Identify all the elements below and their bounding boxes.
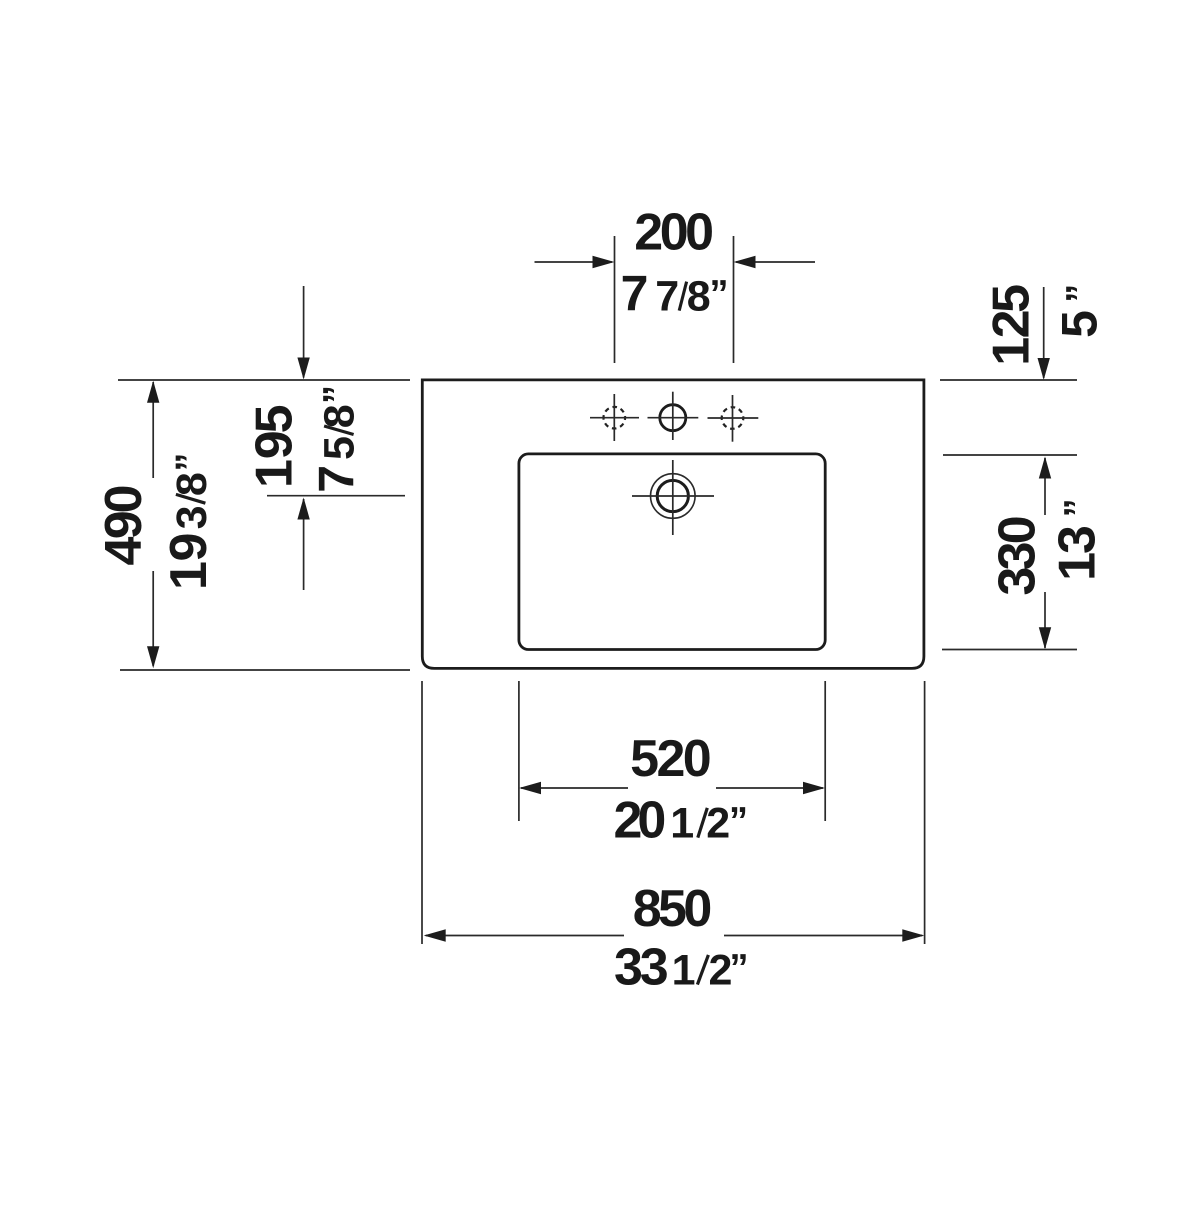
svg-text:1: 1 bbox=[670, 800, 694, 848]
svg-text:”: ” bbox=[317, 385, 359, 404]
dim 520 left arrowhead bbox=[519, 782, 541, 794]
svg-text:490: 490 bbox=[95, 484, 153, 565]
dim 330 lower segment bbox=[1044, 592, 1046, 648]
svg-text:330: 330 bbox=[988, 515, 1046, 595]
faucet hole right (dashed) bbox=[722, 407, 744, 429]
extension line outline right bottom vertical bbox=[924, 681, 926, 944]
overflow crosshair bbox=[632, 495, 714, 497]
extension line right basin bottom (y=649.5) bbox=[942, 649, 1077, 651]
faucet hole right crosshair bbox=[708, 417, 759, 419]
dim 850 left arrowhead bbox=[424, 929, 446, 941]
dim 195 lower line bbox=[303, 499, 305, 590]
svg-text:”: ” bbox=[729, 801, 748, 843]
dim 520 right arrowhead bbox=[803, 782, 825, 794]
dim 200 right tail bbox=[736, 261, 815, 263]
dim 850 right segment bbox=[724, 935, 922, 937]
dim 330 upper segment bbox=[1044, 458, 1046, 515]
extension line right top (y=380) bbox=[940, 379, 1077, 381]
svg-text:125: 125 bbox=[982, 284, 1040, 366]
extension line right basin top (y=455) bbox=[943, 454, 1077, 456]
dim 195 upper arrowhead bbox=[297, 358, 309, 380]
svg-text:2: 2 bbox=[706, 800, 730, 848]
dim 125 arrowhead bbox=[1038, 358, 1050, 380]
svg-text:7: 7 bbox=[309, 465, 365, 493]
extension line tap hole left vertical bbox=[614, 236, 616, 363]
dim 200 right arrowhead bbox=[734, 256, 756, 268]
svg-text:8: 8 bbox=[168, 472, 216, 496]
svg-text:8: 8 bbox=[316, 404, 364, 428]
extension line outline left bottom vertical bbox=[421, 681, 423, 944]
faucet hole left crosshair bbox=[590, 417, 639, 419]
svg-text:195: 195 bbox=[246, 404, 304, 488]
inner basin rim bbox=[519, 454, 825, 650]
dim 490 upper segment bbox=[152, 382, 154, 478]
svg-text:”: ” bbox=[169, 453, 211, 472]
svg-text:20: 20 bbox=[614, 792, 667, 850]
dim 200 left arrowhead bbox=[593, 256, 615, 268]
dim 520 left segment bbox=[521, 787, 628, 789]
dim 490 lower arrowhead bbox=[147, 646, 159, 668]
extension line basin right bottom vertical bbox=[824, 681, 826, 821]
dim 850 left segment bbox=[426, 935, 624, 937]
svg-text:8: 8 bbox=[687, 273, 711, 321]
svg-text:520: 520 bbox=[630, 730, 712, 788]
dim 850 right arrowhead bbox=[902, 929, 924, 941]
dim 490 upper arrowhead bbox=[147, 381, 159, 403]
svg-text:5: 5 bbox=[316, 436, 364, 460]
extension line overflow level (y=495.7) bbox=[267, 495, 405, 497]
dim 195 upper line bbox=[303, 286, 305, 378]
dim 520 right segment bbox=[716, 787, 823, 789]
svg-text:33: 33 bbox=[614, 939, 669, 997]
overflow hole outer circle bbox=[651, 474, 696, 519]
dim 200 left tail bbox=[535, 261, 613, 263]
svg-text:13: 13 bbox=[1048, 525, 1106, 581]
dim 490 lower segment bbox=[152, 571, 154, 666]
dim 330 upper arrowhead bbox=[1039, 457, 1051, 479]
svg-text:19: 19 bbox=[160, 533, 218, 591]
svg-text:1: 1 bbox=[672, 947, 696, 995]
svg-text:7: 7 bbox=[655, 273, 679, 321]
svg-text:”: ” bbox=[1060, 284, 1102, 303]
dim 125 line bbox=[1043, 287, 1045, 378]
svg-text:”: ” bbox=[710, 274, 729, 316]
faucet hole center (solid) bbox=[660, 405, 686, 431]
svg-text:3: 3 bbox=[168, 505, 216, 529]
faucet hole center crosshair bbox=[648, 417, 699, 419]
svg-text:”: ” bbox=[1057, 498, 1099, 517]
dim 330 lower arrowhead bbox=[1039, 627, 1051, 649]
extension line bottom-left (y=670) bbox=[120, 669, 410, 671]
faucet hole left (dashed) bbox=[604, 407, 626, 429]
extension line top-left (y=380) bbox=[118, 379, 410, 381]
washbasin outer outline bbox=[422, 380, 924, 669]
svg-text:”: ” bbox=[730, 948, 749, 990]
svg-text:5: 5 bbox=[1052, 310, 1108, 338]
svg-text:7: 7 bbox=[621, 266, 649, 322]
extension line basin left bottom vertical bbox=[518, 681, 520, 821]
dim 195 lower arrowhead bbox=[297, 498, 309, 520]
extension line tap hole right vertical bbox=[733, 236, 735, 363]
svg-text:850: 850 bbox=[633, 880, 713, 938]
overflow hole inner circle bbox=[657, 480, 688, 511]
svg-text:200: 200 bbox=[634, 203, 714, 261]
